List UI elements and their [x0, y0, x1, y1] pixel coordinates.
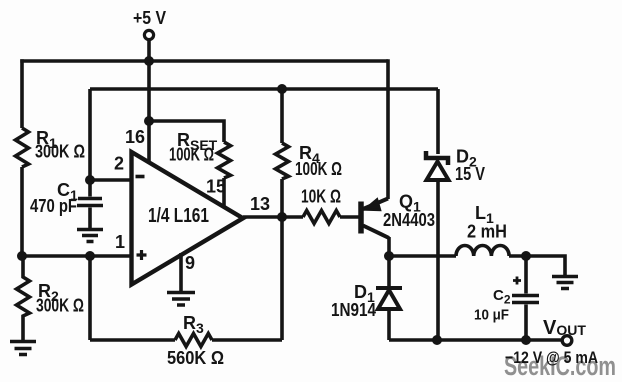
wire collector drop [387, 237, 391, 256]
diode D1 [387, 256, 391, 287]
node pin16 junction [144, 116, 154, 126]
resistor 10K [303, 211, 340, 224]
svg-text:1N914: 1N914 [331, 300, 376, 320]
wire R4 top [280, 89, 284, 143]
wire C2 node to ground corner [526, 256, 565, 275]
resistor R3 [175, 334, 212, 347]
ground below C1 [77, 230, 103, 242]
node C2 top junction [521, 251, 531, 261]
node feedback junction [85, 251, 95, 261]
ground below R2 [10, 342, 36, 355]
node collector junction [384, 251, 394, 261]
wire left rail lower [20, 167, 24, 256]
wire feedback bottom left [90, 338, 175, 342]
wire RSET top feed [149, 121, 224, 142]
wire -12V output rail [389, 338, 562, 342]
wire L1 to C2 node [509, 254, 526, 258]
svg-text:100K Ω: 100K Ω [169, 145, 214, 165]
wire top +5V rail [20, 59, 388, 63]
wire non-inverting input [22, 254, 132, 258]
terminal VOUT [562, 336, 572, 346]
ground at pin 9 [167, 293, 195, 306]
transistor Q1 [358, 202, 364, 234]
wire pin 16 VCC stub [147, 121, 151, 164]
svg-text:15 V: 15 V [455, 164, 485, 184]
polarity plus mark C2 [513, 277, 521, 285]
wire R4 bottom to output node [280, 179, 284, 217]
svg-text:2: 2 [114, 154, 124, 174]
node +5V top rail junction [144, 56, 154, 66]
svg-text:2N4403: 2N4403 [383, 210, 435, 230]
wire timing rail node A [90, 87, 438, 91]
op-amp U1 1/4 L161 [132, 152, 244, 285]
wire node A drop to pin 2 [88, 89, 92, 180]
inductor L1 [456, 246, 509, 257]
diode D2 zener [436, 89, 440, 154]
node output feedback junction [277, 212, 287, 222]
resistor R4 [276, 143, 289, 179]
wire emitter to +5V rail [386, 59, 390, 199]
svg-text:10 μF: 10 μF [474, 307, 509, 324]
wire inverting input [90, 178, 132, 182]
wire RSET to pin 15 [222, 178, 226, 207]
wire feedback loop left drop [88, 256, 92, 340]
svg-text:300K Ω: 300K Ω [35, 142, 85, 162]
wire pin 9 stub [179, 253, 183, 292]
svg-text:9: 9 [185, 253, 195, 273]
plus input mark [137, 250, 147, 260]
svg-text:15: 15 [206, 177, 226, 197]
resistor R2 [17, 256, 30, 341]
node pin2 C1 junction [85, 175, 95, 185]
capacitor C2 [512, 256, 539, 340]
terminal +5V [144, 30, 153, 39]
svg-text:2 mH: 2 mH [467, 222, 507, 242]
node C2 output rail junction [521, 335, 531, 345]
minus input mark [136, 175, 145, 179]
ground at L1 right [552, 277, 578, 289]
wire feedback bottom right [212, 338, 282, 342]
svg-text:−12 V @ 5 mA: −12 V @ 5 mA [505, 348, 598, 367]
resistor RSET [218, 142, 231, 178]
wire op-amp output [243, 215, 303, 219]
node R4 top junction [277, 84, 287, 94]
wire collector node to L1 [389, 254, 456, 258]
svg-text:10K Ω: 10K Ω [301, 187, 341, 207]
svg-text:1/4 L161: 1/4 L161 [148, 205, 209, 227]
wire base lead [340, 215, 359, 219]
svg-text:560K Ω: 560K Ω [167, 348, 224, 368]
resistor R1 [16, 128, 29, 167]
svg-text:+5 V: +5 V [133, 8, 166, 28]
wire left rail upper [20, 59, 24, 128]
wire +5V drop [147, 40, 151, 121]
svg-text:100K Ω: 100K Ω [295, 159, 342, 179]
capacitor C1 [77, 180, 103, 228]
node divider junction [17, 251, 27, 261]
svg-text:13: 13 [250, 194, 270, 214]
svg-text:300K Ω: 300K Ω [36, 296, 84, 316]
svg-text:1: 1 [115, 232, 125, 252]
node D2 output rail junction [432, 335, 442, 345]
svg-text:16: 16 [125, 127, 145, 147]
svg-text:470 pF: 470 pF [30, 196, 77, 216]
wire feedback riser [280, 217, 284, 340]
